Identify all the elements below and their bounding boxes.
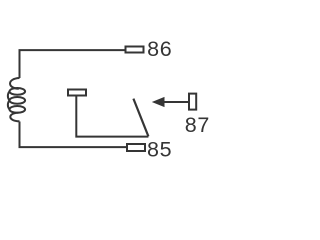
wire: contact stem and pivot rail: [76, 97, 148, 137]
svg-text:87: 87: [185, 113, 210, 137]
arrow shaft to terminal 87: [162, 101, 188, 103]
wire: coil bottom to terminal 85: [20, 122, 127, 148]
svg-text:86: 86: [147, 37, 172, 61]
relay coil L1: [8, 78, 25, 121]
switch arm (movable contact): [133, 99, 148, 137]
terminal 85: [127, 144, 145, 151]
terminal 86: [126, 47, 144, 53]
terminal 87: [189, 94, 196, 110]
wire: coil top to terminal 86: [20, 50, 125, 78]
fixed contact plate: [68, 90, 86, 96]
arrowhead: [152, 97, 165, 107]
svg-text:85: 85: [147, 138, 172, 162]
